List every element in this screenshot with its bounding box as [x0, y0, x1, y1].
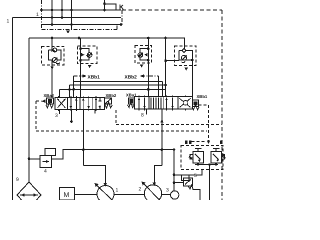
- svg-text:1: 1: [116, 188, 119, 194]
- left outer return line: [12, 18, 14, 201]
- check valve component 4: [29, 149, 56, 175]
- supply line y=38: [29, 37, 185, 47]
- svg-text:XBb1: XBb1: [197, 94, 208, 99]
- pilot dash-dot horizontal y=29.5: [42, 10, 123, 34]
- dashed enclosure left valve: [36, 99, 207, 131]
- pilot pump 3: [166, 188, 179, 200]
- wire bus y=17: [13, 16, 122, 19]
- pump 2 feed jog: [153, 165, 162, 186]
- svg-text:5: 5: [194, 173, 197, 179]
- boundary dashed right x=222: [221, 10, 223, 200]
- svg-text:1: 1: [36, 12, 39, 18]
- balance valve block 3: [135, 38, 151, 97]
- svg-text:3: 3: [166, 188, 169, 194]
- directional valve 3 (left): [44, 93, 117, 119]
- pilot label XBb2 mid right: [125, 74, 159, 80]
- wire vertical from top edge x=52: [51, 0, 53, 25]
- wire top bus y=10: [40, 9, 121, 12]
- left return vertical x=29: [28, 38, 31, 182]
- valve 8 bottom ports: [147, 109, 164, 165]
- svg-text:XBb2: XBb2: [106, 93, 117, 98]
- svg-text:XBb2: XBb2: [125, 74, 138, 80]
- wire vertical from top edge x=71.5: [71, 0, 73, 30]
- node mark at x=122 top: [120, 5, 123, 10]
- motor M: [60, 188, 98, 201]
- bus line y=81.7: [74, 81, 163, 83]
- return line valve T to pilot area: [52, 148, 176, 159]
- riser x=69.5: [69, 85, 71, 97]
- riser x=165.6: [165, 38, 167, 97]
- pump 1 feed line: [83, 166, 107, 187]
- svg-text:8: 8: [141, 113, 144, 119]
- riser x=59.5: [59, 89, 61, 97]
- riser x=73.6 pilot: [73, 76, 75, 97]
- valve 3 bottom ports: [60, 110, 96, 166]
- pilot label XBb1 mid left: [74, 74, 100, 80]
- pilot supply line to relief and circle3: [173, 150, 202, 191]
- dashed enclosure right valve: [116, 110, 222, 125]
- svg-text:M: M: [64, 192, 70, 199]
- balance valve block 1: [41, 38, 64, 97]
- bus line y=89.4: [60, 88, 166, 91]
- balance valve block 4: [164, 38, 196, 97]
- wire vertical from top edge x=104.5: [104, 0, 106, 10]
- relief valve 5: [174, 173, 200, 200]
- wire vertical from top edge x=62: [61, 0, 63, 18]
- wire jog at top right: [103, 3, 116, 11]
- pump 1: [95, 183, 145, 203]
- svg-text:1: 1: [7, 19, 10, 25]
- boundary dashed top y=10: [122, 9, 222, 11]
- svg-text:2: 2: [139, 187, 142, 193]
- pump 2: [139, 182, 171, 203]
- pilot dash-dot vertical x=41.5: [41, 0, 43, 30]
- riser x=158.3: [157, 76, 159, 97]
- svg-text:4: 4: [44, 169, 47, 175]
- filter diamond 9: [16, 177, 41, 208]
- balance valve block 2: [78, 38, 97, 97]
- svg-text:XBa2: XBa2: [44, 93, 55, 98]
- riser x=162.7: [162, 82, 164, 97]
- pilot dashes from right solenoid: [199, 105, 211, 144]
- svg-text:XBb1: XBb1: [88, 74, 101, 80]
- directional valve 8 (right): [126, 92, 208, 118]
- wire bus y=24.5: [42, 23, 123, 26]
- pilot control box (joystick): [181, 141, 225, 201]
- bus line y=85: [70, 84, 167, 87]
- svg-text:3: 3: [55, 113, 58, 119]
- svg-text:9: 9: [16, 177, 19, 183]
